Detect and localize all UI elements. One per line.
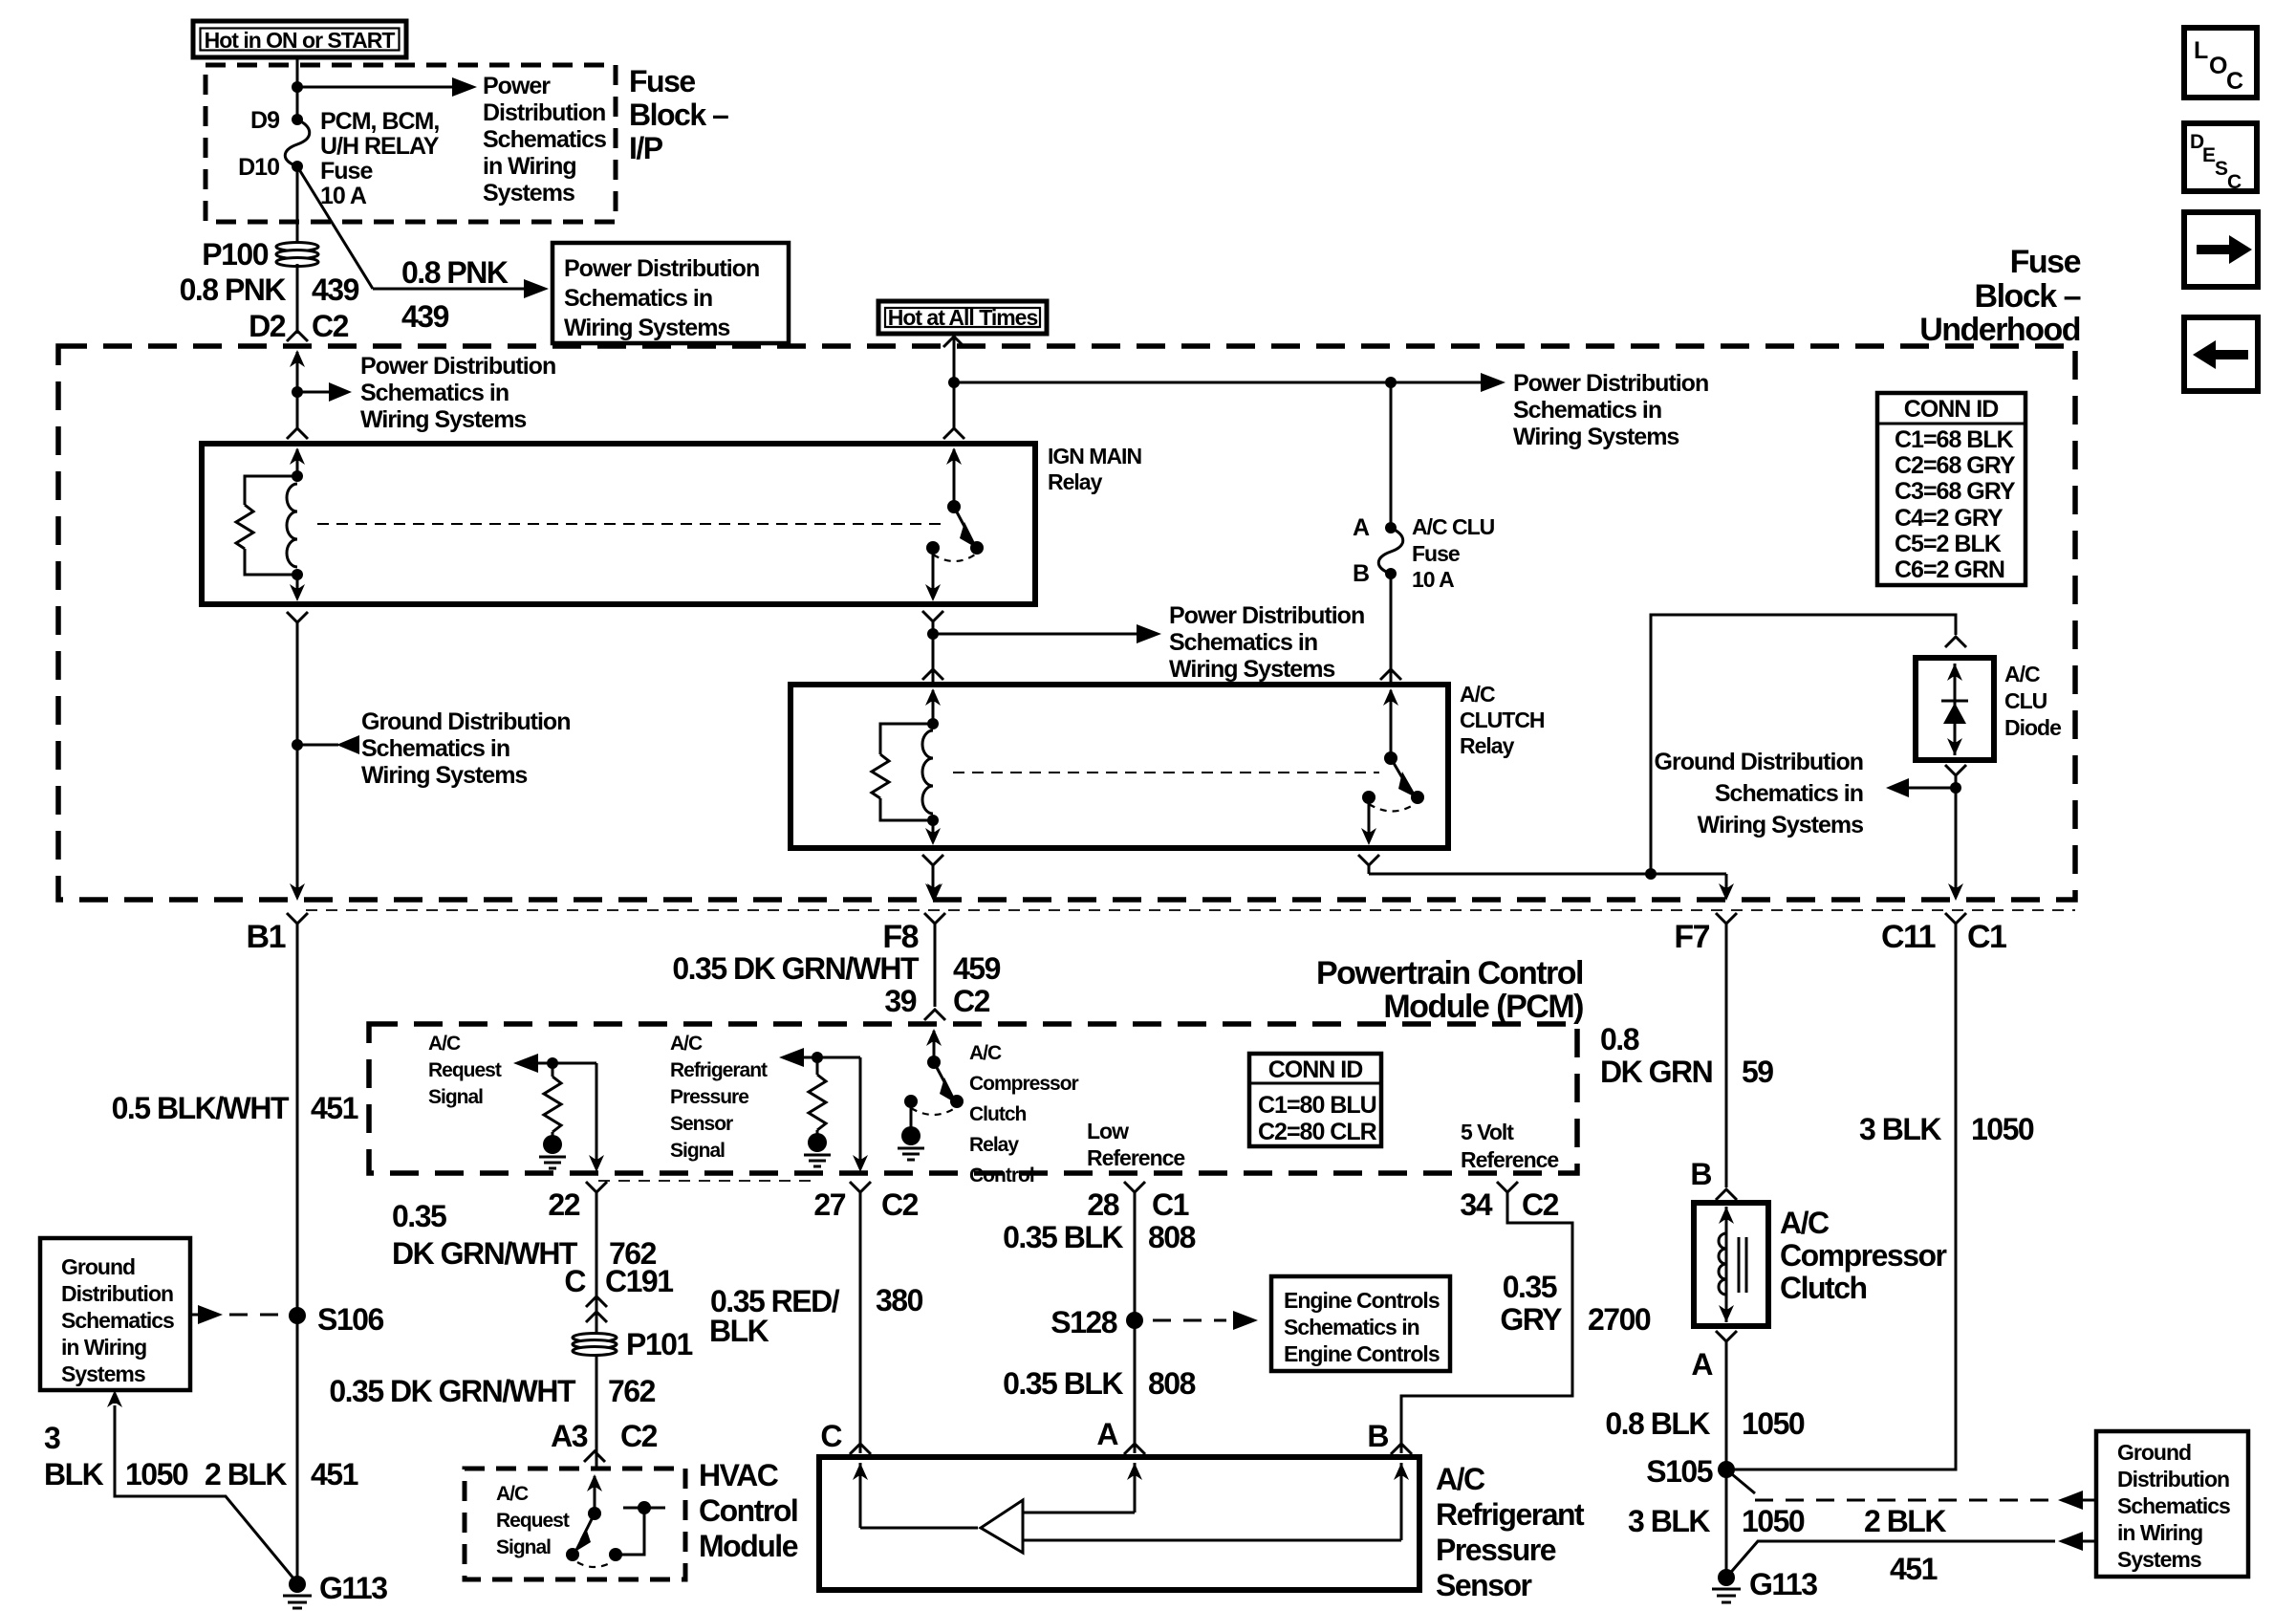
wire: coil feed arrow into A/C clutch relay bbox=[925, 688, 941, 724]
label: HVAC Control Module bbox=[699, 1458, 798, 1563]
label: 3 BLK 1050 (C1 wire) bbox=[1859, 1112, 2034, 1146]
svg-text:P101: P101 bbox=[626, 1327, 692, 1361]
component box: A/C Refrigerant Pressure Sensor bbox=[819, 1457, 1419, 1590]
svg-text:C2: C2 bbox=[881, 1187, 919, 1222]
switch: A/C compressor clutch relay control driver bbox=[904, 1056, 964, 1115]
label: Fuse Block - Underhood bbox=[1919, 244, 2080, 348]
wire: pin 27 output down bbox=[853, 1057, 868, 1172]
svg-text:Refrigerant: Refrigerant bbox=[670, 1059, 768, 1081]
svg-text:Power Distribution: Power Distribution bbox=[360, 353, 555, 380]
label: 0.5 BLK/WHT 451 bbox=[112, 1091, 358, 1125]
ground: relay control internal ground bbox=[898, 1101, 924, 1160]
svg-text:0.5 BLK/WHT: 0.5 BLK/WHT bbox=[112, 1091, 290, 1125]
svg-text:Module: Module bbox=[699, 1529, 798, 1563]
pins C11 C1 bbox=[1881, 919, 2006, 955]
svg-text:Schematics: Schematics bbox=[61, 1308, 174, 1333]
svg-text:L: L bbox=[2194, 37, 2208, 64]
label: A/C Compressor Clutch Relay Control bbox=[969, 1042, 1079, 1186]
svg-text:0.35 DK GRN/WHT: 0.35 DK GRN/WHT bbox=[329, 1374, 576, 1408]
svg-text:Ground: Ground bbox=[2117, 1440, 2191, 1465]
svg-text:B: B bbox=[1353, 560, 1369, 587]
note: power distribution schematics (middle) bbox=[1169, 602, 1364, 683]
node: splice S105 bbox=[1718, 1461, 1735, 1478]
node: branch junction at A/C CLU fuse bbox=[1385, 377, 1397, 388]
svg-text:Fuse: Fuse bbox=[629, 64, 695, 98]
svg-text:Engine Controls: Engine Controls bbox=[1284, 1288, 1440, 1313]
svg-text:C4=2 GRY: C4=2 GRY bbox=[1895, 505, 2004, 532]
svg-text:1050: 1050 bbox=[1742, 1504, 1805, 1538]
svg-text:Wiring Systems: Wiring Systems bbox=[564, 315, 729, 341]
resistor: A/C clutch relay parallel resistor bbox=[872, 724, 933, 820]
wire: left rail inside underhood continuing down bbox=[296, 622, 299, 897]
wire: coil feed arrow into IGN relay bbox=[290, 447, 305, 476]
label: A/C CLU Fuse 10 A bbox=[1412, 514, 1495, 592]
wire: switch feed arrow into A/C clutch relay bbox=[1383, 688, 1398, 758]
node: IGN output junction bbox=[927, 628, 939, 640]
diode box: A/C CLU Diode bbox=[1916, 658, 1994, 760]
component box: A/C Compressor Clutch bbox=[1694, 1203, 1768, 1326]
wire: ignition feed into I/P fuse block bbox=[296, 56, 299, 120]
svg-text:A: A bbox=[1096, 1417, 1118, 1451]
connector chevron below A/C clutch relay output bbox=[1358, 855, 1379, 874]
svg-text:Refrigerant: Refrigerant bbox=[1436, 1497, 1585, 1532]
connector chevron below IGN relay output bbox=[922, 611, 943, 631]
svg-text:B: B bbox=[1690, 1157, 1711, 1191]
svg-text:Pressure: Pressure bbox=[1436, 1533, 1556, 1567]
svg-text:Reference: Reference bbox=[1461, 1147, 1558, 1172]
svg-text:A/C: A/C bbox=[670, 1033, 703, 1055]
wire: 2 BLK 451 from G113 to ground distribution bbox=[1726, 1532, 2096, 1578]
svg-text:Schematics in: Schematics in bbox=[1284, 1315, 1419, 1339]
thin connector rail below underhood box bbox=[306, 909, 2075, 911]
svg-text:2 BLK: 2 BLK bbox=[205, 1457, 287, 1491]
CONN ID table (underhood) bbox=[1877, 393, 2025, 585]
coil: compressor clutch winding bbox=[1719, 1207, 1746, 1322]
svg-text:Control: Control bbox=[699, 1493, 797, 1528]
CONN ID table (PCM) bbox=[1249, 1054, 1381, 1146]
module box: Powertrain Control Module (dashed) bbox=[369, 1024, 1577, 1173]
svg-text:Block –: Block – bbox=[629, 98, 728, 132]
wire: A/C request signal with arrow left bbox=[513, 1054, 596, 1073]
svg-text:A/C CLU: A/C CLU bbox=[1412, 514, 1495, 539]
svg-text:Low: Low bbox=[1087, 1119, 1129, 1143]
svg-text:A/C: A/C bbox=[1436, 1462, 1485, 1496]
icon box: LOC bbox=[2184, 28, 2257, 98]
node: diode branch junction bbox=[1645, 868, 1657, 880]
svg-text:in Wiring: in Wiring bbox=[483, 153, 576, 180]
svg-text:Hot in ON or START: Hot in ON or START bbox=[205, 28, 396, 53]
svg-text:B: B bbox=[1367, 1419, 1388, 1453]
svg-text:Power Distribution: Power Distribution bbox=[1513, 370, 1708, 397]
label box: Hot in ON or START bbox=[193, 21, 406, 57]
svg-text:Relay: Relay bbox=[1048, 469, 1103, 494]
svg-text:F7: F7 bbox=[1674, 919, 1709, 955]
svg-text:C1=68 BLK: C1=68 BLK bbox=[1895, 426, 2014, 453]
svg-text:C6=2 GRN: C6=2 GRN bbox=[1895, 556, 2004, 583]
svg-text:BLK: BLK bbox=[44, 1457, 104, 1491]
wire: request switch fixed contact network bbox=[616, 1501, 665, 1555]
note: ground distribution schematics (right) bbox=[1655, 749, 1864, 838]
label: 0.8 PNK 439 bbox=[180, 272, 359, 307]
svg-text:459: 459 bbox=[953, 951, 1001, 986]
svg-text:O: O bbox=[2209, 53, 2227, 79]
svg-text:Schematics in: Schematics in bbox=[1715, 780, 1863, 807]
svg-text:59: 59 bbox=[1742, 1055, 1773, 1089]
label: A/C CLUTCH Relay bbox=[1460, 682, 1545, 758]
svg-text:Wiring Systems: Wiring Systems bbox=[1169, 656, 1334, 683]
svg-text:A3: A3 bbox=[551, 1419, 588, 1453]
connector chevron below pin 22 bbox=[586, 1182, 607, 1202]
svg-text:C: C bbox=[820, 1419, 842, 1453]
svg-text:Control: Control bbox=[969, 1165, 1034, 1186]
ground: request pull-up internal ground bbox=[539, 1132, 566, 1168]
svg-text:27: 27 bbox=[813, 1187, 845, 1222]
resistor: sensor signal pull-up bbox=[809, 1057, 826, 1130]
node: request signal pull-up junction bbox=[547, 1057, 558, 1069]
connector chevron below diode bbox=[1945, 765, 1966, 784]
connector C191 double chevron bbox=[586, 1296, 607, 1335]
note: power distribution schematics (I/P) bbox=[483, 73, 606, 207]
svg-text:Schematics: Schematics bbox=[483, 126, 606, 153]
wire: 0.8 PNK 439 down to underhood fuse block bbox=[296, 264, 299, 334]
svg-text:D2: D2 bbox=[249, 309, 286, 343]
svg-text:C191: C191 bbox=[605, 1264, 673, 1298]
label: 0.35 DK GRN/WHT 762 (lower) bbox=[329, 1374, 655, 1408]
wire: branch 0.8 PNK 439 to power distribution bbox=[297, 166, 549, 298]
label: IGN MAIN Relay bbox=[1048, 444, 1141, 494]
svg-text:A: A bbox=[1353, 514, 1370, 541]
label: A/C Compressor Clutch bbox=[1780, 1206, 1947, 1305]
node: hot feed junction bbox=[948, 377, 960, 388]
module box: Fuse Block - I/P (dashed) bbox=[206, 65, 616, 222]
label: A/C Request Signal (PCM) bbox=[428, 1033, 502, 1108]
wire: dashed branch to engine controls bbox=[1153, 1311, 1258, 1330]
svg-text:0.35 BLK: 0.35 BLK bbox=[1003, 1366, 1123, 1401]
note box: Ground Distribution Schematics in Wiring Systems (bottom right) bbox=[2096, 1431, 2248, 1577]
svg-text:380: 380 bbox=[876, 1283, 923, 1317]
wire: fuse B down to A/C clutch relay bbox=[1390, 574, 1393, 683]
label: Powertrain Control Module (PCM) bbox=[1316, 955, 1583, 1025]
svg-text:Sensor: Sensor bbox=[670, 1113, 733, 1135]
svg-text:Systems: Systems bbox=[61, 1361, 145, 1386]
svg-text:439: 439 bbox=[312, 272, 359, 307]
pins 27 C2 bbox=[813, 1187, 918, 1222]
label: 2 BLK 451 (left) bbox=[205, 1457, 358, 1491]
sensor internal: pin C arrow and lead bbox=[853, 1463, 978, 1528]
svg-text:Fuse: Fuse bbox=[2010, 244, 2081, 280]
wire: 0.35 DK GRN/WHT 459 to PCM bbox=[934, 933, 937, 1007]
svg-text:C1: C1 bbox=[1152, 1187, 1189, 1222]
fuse: A/C CLU Fuse 10 A bbox=[1378, 522, 1403, 579]
svg-text:C5=2 BLK: C5=2 BLK bbox=[1895, 531, 2002, 557]
pins A3 C2 bbox=[551, 1419, 658, 1453]
connector chevron at underhood entry bbox=[287, 331, 308, 341]
svg-text:CLU: CLU bbox=[2004, 688, 2047, 713]
note: power distribution schematics (top right) bbox=[1513, 370, 1708, 450]
label: 0.8 DK GRN 59 bbox=[1600, 1022, 1773, 1089]
svg-text:B1: B1 bbox=[247, 919, 286, 955]
svg-text:Schematics: Schematics bbox=[2117, 1493, 2230, 1518]
node: IGN coil bottom bbox=[292, 569, 303, 580]
connector chevron above PCM (pin 39) bbox=[924, 1010, 945, 1020]
svg-text:1050: 1050 bbox=[125, 1457, 188, 1491]
wire: switch feed arrow into IGN relay bbox=[946, 447, 962, 507]
svg-text:Diode: Diode bbox=[2004, 715, 2061, 740]
svg-text:BLK: BLK bbox=[709, 1314, 769, 1348]
label box: Hot at All Times bbox=[878, 301, 1047, 334]
connector chevron above sensor pin B bbox=[1391, 1444, 1412, 1454]
svg-text:CONN ID: CONN ID bbox=[1268, 1056, 1363, 1083]
svg-text:10 A: 10 A bbox=[1412, 567, 1454, 592]
svg-text:Systems: Systems bbox=[483, 180, 574, 207]
svg-text:3 BLK: 3 BLK bbox=[1628, 1504, 1710, 1538]
module box: HVAC Control Module (dashed) bbox=[465, 1469, 685, 1579]
svg-text:E: E bbox=[2202, 144, 2216, 166]
connector chevron below pin 34 bbox=[1497, 1182, 1518, 1202]
svg-text:A: A bbox=[1691, 1347, 1713, 1382]
svg-text:Relay: Relay bbox=[969, 1134, 1019, 1156]
svg-text:C: C bbox=[2227, 171, 2242, 193]
note box: Engine Controls Schematics in Engine Controls bbox=[1271, 1276, 1450, 1371]
wire: 0.8 DK GRN 59 to compressor clutch bbox=[1725, 933, 1728, 1187]
wire: arrow to power distribution note (top right) bbox=[1391, 373, 1505, 392]
svg-text:808: 808 bbox=[1148, 1220, 1196, 1254]
svg-text:Fuse: Fuse bbox=[1412, 541, 1460, 566]
svg-text:C2: C2 bbox=[953, 984, 990, 1018]
svg-text:GRY: GRY bbox=[1500, 1302, 1562, 1337]
svg-text:A/C: A/C bbox=[428, 1033, 461, 1055]
svg-text:1050: 1050 bbox=[1742, 1406, 1805, 1441]
wire: arrow to power distribution (I/P) bbox=[297, 77, 477, 97]
svg-text:Engine Controls: Engine Controls bbox=[1284, 1341, 1440, 1366]
connector chevron below F7 bbox=[1716, 913, 1737, 933]
node: ground G113 (left) bbox=[283, 1576, 312, 1608]
svg-text:A/C: A/C bbox=[2004, 662, 2040, 686]
svg-text:Relay: Relay bbox=[1460, 733, 1515, 758]
svg-text:808: 808 bbox=[1148, 1366, 1196, 1401]
switch: IGN MAIN relay contacts bbox=[926, 500, 984, 561]
svg-text:PCM, BCM,: PCM, BCM, bbox=[320, 108, 439, 135]
wire: 0.5 BLK/WHT 451 left rail down to G113 bbox=[296, 933, 299, 1582]
node: splice S128 bbox=[1126, 1312, 1143, 1329]
label: A/C Refrigerant Pressure Sensor Signal bbox=[670, 1033, 768, 1162]
wire: relay control arrow into PCM bbox=[926, 1029, 942, 1062]
connector chevron below C11 bbox=[1945, 913, 1966, 933]
sensor internal: pin B arrow and lead bbox=[1023, 1463, 1409, 1540]
switch: A/C request switch bbox=[566, 1507, 622, 1567]
svg-text:S: S bbox=[2215, 158, 2228, 180]
svg-text:Wiring Systems: Wiring Systems bbox=[360, 406, 526, 433]
wire: A/C request 762 down to C191 bbox=[596, 1202, 598, 1317]
svg-text:451: 451 bbox=[1890, 1552, 1938, 1586]
svg-text:Signal: Signal bbox=[496, 1536, 551, 1558]
wire: branch up to A/C CLU diode bbox=[1651, 615, 1956, 874]
wire: coil ground arrow out of A/C clutch relay bbox=[925, 820, 941, 845]
node: diode to ground junction bbox=[1950, 782, 1961, 794]
connector chevron below F8 bbox=[924, 913, 945, 933]
svg-text:in Wiring: in Wiring bbox=[61, 1335, 146, 1360]
connector chevron below compressor clutch bbox=[1716, 1331, 1737, 1350]
svg-text:Ground Distribution: Ground Distribution bbox=[1655, 749, 1863, 775]
relay box: IGN MAIN Relay bbox=[202, 444, 1035, 604]
svg-text:Schematics in: Schematics in bbox=[564, 285, 712, 312]
label: 0.8 BLK 1050 bbox=[1605, 1406, 1805, 1441]
pins 34 C2 bbox=[1460, 1187, 1558, 1222]
connector chevron above A/C CLU diode bbox=[1945, 637, 1966, 647]
node: junction to power distribution note bbox=[292, 386, 303, 398]
label: 3 BLK 1050 (below S105) bbox=[1628, 1504, 1805, 1538]
connector chevron above compressor clutch bbox=[1716, 1189, 1737, 1200]
wire: arrow to ground distribution note (right) bbox=[1886, 778, 1956, 797]
label: 5 Volt Reference bbox=[1461, 1120, 1558, 1172]
label: Fuse Block - I/P bbox=[629, 64, 728, 165]
wire: fuse output down to P100 bbox=[296, 166, 299, 245]
node: IGN coil top bbox=[292, 470, 303, 482]
connector P101 grommet bbox=[573, 1334, 617, 1382]
svg-text:S105: S105 bbox=[1646, 1454, 1712, 1489]
svg-text:Fuse: Fuse bbox=[320, 158, 373, 185]
wire: 380 pressure signal down to sensor bbox=[859, 1202, 862, 1453]
connector chevron above IGN relay (switch feed) bbox=[943, 428, 964, 439]
svg-text:P100: P100 bbox=[202, 237, 268, 272]
connector chevron above sensor pin C bbox=[850, 1444, 871, 1454]
node: A/C clutch coil bottom bbox=[927, 815, 939, 826]
svg-text:D9: D9 bbox=[250, 107, 279, 134]
connector P100 grommet bbox=[276, 243, 318, 267]
svg-text:28: 28 bbox=[1087, 1187, 1118, 1222]
wire: 762 down to HVAC module bbox=[596, 1381, 598, 1469]
label: 0.35 BLK 808 (lower) bbox=[1003, 1366, 1196, 1401]
label: 0.35 DK GRN/WHT 459 39 C2 bbox=[672, 951, 1000, 1018]
svg-text:Ground: Ground bbox=[61, 1254, 135, 1279]
coil: A/C clutch relay winding bbox=[922, 730, 933, 814]
svg-text:10 A: 10 A bbox=[320, 183, 367, 209]
wire: dashed ground distribution branch from S105 bbox=[1726, 1469, 2096, 1510]
svg-text:439: 439 bbox=[401, 299, 449, 334]
wire: 0.8 BLK 1050 down to S105 bbox=[1725, 1350, 1728, 1578]
label: A/C CLU Diode bbox=[2004, 662, 2061, 740]
coil: IGN MAIN relay winding bbox=[287, 484, 297, 567]
svg-text:C3=68 GRY: C3=68 GRY bbox=[1895, 478, 2016, 505]
svg-text:Distribution: Distribution bbox=[61, 1281, 173, 1306]
svg-text:2 BLK: 2 BLK bbox=[1864, 1504, 1946, 1538]
label: 0.35 RED/ BLK 380 bbox=[709, 1283, 923, 1348]
label: 0.35 BLK 808 (upper) bbox=[1003, 1220, 1196, 1254]
svg-text:Module (PCM): Module (PCM) bbox=[1383, 989, 1583, 1025]
label: 0.35 DK GRN/WHT 762 (upper) bbox=[392, 1199, 657, 1271]
svg-text:0.35: 0.35 bbox=[1503, 1270, 1557, 1304]
connector chevron below IGN relay (left rail) bbox=[287, 612, 308, 622]
svg-text:Compressor: Compressor bbox=[1780, 1238, 1947, 1273]
svg-text:CLUTCH: CLUTCH bbox=[1460, 708, 1545, 732]
pins 28 C1 bbox=[1087, 1187, 1188, 1222]
sensor internal: pin A arrow and lead bbox=[1023, 1463, 1142, 1513]
wire: switched output arrow down (relay) bbox=[1361, 797, 1376, 845]
wire: 0.35 GRY 2700 five volt reference bbox=[1401, 1202, 1572, 1453]
svg-text:Request: Request bbox=[496, 1510, 570, 1532]
node: splice S106 bbox=[289, 1307, 306, 1324]
svg-text:22: 22 bbox=[548, 1187, 579, 1222]
sensor internal: amplifier triangle bbox=[981, 1500, 1023, 1553]
connector chevron at F8 exit bbox=[922, 855, 943, 865]
ground: sensor pull-up internal ground bbox=[804, 1130, 831, 1166]
svg-text:Hot at All Times: Hot at All Times bbox=[888, 305, 1038, 330]
svg-text:Reference: Reference bbox=[1087, 1145, 1184, 1170]
wire: F8 relay control leaving underhood bbox=[927, 883, 942, 901]
icon box: DESC bbox=[2184, 123, 2257, 193]
wire: left rail entering underhood box bbox=[290, 350, 305, 430]
svg-text:IGN MAIN: IGN MAIN bbox=[1048, 444, 1141, 468]
wire: relay output to F7 and diode bbox=[1369, 873, 1726, 876]
svg-text:Schematics in: Schematics in bbox=[361, 735, 509, 762]
svg-text:in Wiring: in Wiring bbox=[2117, 1520, 2202, 1545]
svg-text:1050: 1050 bbox=[1971, 1112, 2034, 1146]
wire: F8 coil output leaving underhood box bbox=[925, 865, 941, 901]
svg-text:C11: C11 bbox=[1881, 919, 1936, 955]
svg-text:DK GRN/WHT: DK GRN/WHT bbox=[392, 1236, 578, 1271]
svg-text:I/P: I/P bbox=[629, 131, 663, 165]
connector chevron at underhood entry (hot feed) bbox=[943, 337, 964, 347]
wire: arrow to ground distribution note bbox=[297, 735, 359, 754]
svg-text:A/C: A/C bbox=[1780, 1206, 1830, 1240]
svg-text:C: C bbox=[2226, 68, 2243, 95]
wire: coil ground arrow out of IGN relay bbox=[290, 575, 305, 601]
note box: Ground Distribution Schematics in Wiring Systems (left) bbox=[40, 1238, 190, 1390]
connector chevron above A/C clutch relay (feed) bbox=[1380, 669, 1401, 680]
svg-text:Underhood: Underhood bbox=[1919, 312, 2080, 348]
icon box: forward arrow bbox=[2184, 212, 2258, 287]
label: 0.8 PNK 439 (branch) bbox=[401, 255, 509, 334]
fuse: PCM BCM U/H RELAY Fuse 10 A bbox=[285, 114, 310, 172]
svg-text:Power Distribution: Power Distribution bbox=[1169, 602, 1364, 629]
svg-text:39: 39 bbox=[884, 984, 916, 1018]
svg-text:3: 3 bbox=[44, 1421, 60, 1455]
wire: 3 BLK 1050 ground wire down to S105 bbox=[1726, 933, 1956, 1469]
svg-text:Schematics in: Schematics in bbox=[1513, 397, 1661, 424]
svg-text:HVAC: HVAC bbox=[699, 1458, 779, 1492]
switch: A/C clutch relay contacts bbox=[1362, 751, 1424, 812]
wire: F7 switched feed exit bbox=[1719, 874, 1734, 901]
svg-text:451: 451 bbox=[311, 1091, 358, 1125]
svg-text:Pressure: Pressure bbox=[670, 1086, 748, 1108]
node: junction in I/P fuse block bbox=[292, 81, 303, 93]
svg-text:G113: G113 bbox=[1749, 1567, 1817, 1601]
wire: pressure sensor signal with arrow left bbox=[779, 1048, 860, 1067]
wire: diode ground leaving underhood at C11 bbox=[1948, 788, 1963, 901]
svg-text:D10: D10 bbox=[238, 154, 279, 181]
wire: dashed branch to splice S106 bbox=[190, 1305, 287, 1324]
wire: down to A/C CLU fuse bbox=[1390, 382, 1393, 528]
wire: arrow to power distribution note (left) bbox=[297, 382, 352, 402]
label: fuse name bbox=[320, 108, 440, 209]
note box: Power Distribution Schematics in Wiring Systems bbox=[552, 243, 789, 343]
connector chevron below B1 bbox=[287, 913, 308, 933]
wire: arrow to power distribution note (middle) bbox=[933, 624, 1161, 643]
resistor: IGN MAIN relay parallel resistor bbox=[236, 476, 297, 575]
linkage: IGN relay dashed link bbox=[317, 523, 942, 525]
connector chevron above sensor pin A bbox=[1124, 1444, 1145, 1454]
wire: switched output arrow down bbox=[925, 548, 941, 601]
svg-text:C2: C2 bbox=[312, 309, 349, 343]
linkage: A/C clutch relay dashed link bbox=[953, 772, 1379, 773]
wire: hot feed branch to A/C CLU fuse bbox=[954, 381, 1391, 384]
svg-text:0.35: 0.35 bbox=[392, 1199, 446, 1233]
wire: Hot at All Times feed down bbox=[953, 334, 956, 430]
connector chevron below pin 27 bbox=[850, 1182, 871, 1202]
svg-text:Power: Power bbox=[483, 73, 551, 99]
svg-text:F8: F8 bbox=[882, 919, 918, 955]
wire: 808 low reference down to sensor bbox=[1134, 1202, 1137, 1453]
